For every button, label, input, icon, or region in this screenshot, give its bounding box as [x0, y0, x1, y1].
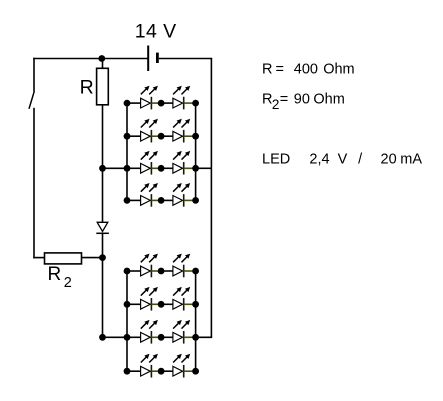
node top-rail/R junction — [98, 55, 105, 62]
node D13 left junction — [124, 165, 131, 172]
wire D11 cathode segment 2 — [184, 102, 196, 104]
wire D23 anode segment 1 — [127, 336, 141, 338]
LED D12b — [173, 119, 190, 143]
wire top-group right column — [195, 103, 197, 200]
LED D21a — [141, 254, 158, 278]
node D23 middle junction — [158, 334, 165, 341]
wire top-group row3 to outer right — [196, 167, 212, 169]
wire left to R2 — [33, 257, 44, 259]
LED D14a — [141, 183, 158, 207]
LED D12a — [141, 119, 158, 143]
svg-text:R: R — [80, 77, 94, 99]
wire D14 cathode segment 2 — [184, 199, 196, 201]
node D14 middle junction — [158, 197, 165, 204]
wire D23 anode segment 2 — [161, 336, 173, 338]
wire D23 cathode segment 2 — [184, 336, 196, 338]
LED D22a — [141, 287, 158, 311]
svg-text:2: 2 — [64, 275, 72, 291]
wire D22 cathode segment 2 — [184, 303, 196, 305]
wire top row3 left extension — [103, 167, 128, 169]
resistor R2 — [45, 253, 82, 264]
node D24 left junction — [124, 368, 131, 375]
battery V1 14V — [148, 46, 157, 72]
wire left vertical lower — [33, 108, 35, 259]
node D21 right junction — [192, 268, 199, 275]
svg-text:R=400Ohm: R=400Ohm — [262, 62, 355, 78]
node D21 left junction — [124, 268, 131, 275]
wire bottom-group left column — [126, 271, 128, 371]
node R2/main junction — [99, 254, 106, 261]
wire diode to R2 node — [102, 233, 104, 257]
node D24 middle junction — [158, 368, 165, 375]
LED D14b — [173, 183, 190, 207]
wire D24 cathode segment 2 — [184, 370, 196, 372]
wire bottom-group row3 to outer right — [196, 336, 213, 338]
wire D13 anode segment 1 — [127, 167, 141, 169]
node D11 middle junction — [158, 100, 165, 107]
node D22 left junction — [124, 301, 131, 308]
node D13 middle junction — [158, 165, 165, 172]
LED D24b — [173, 354, 190, 378]
node D12 left junction — [124, 133, 131, 140]
wire D23 cathode segment 1 — [151, 336, 161, 338]
wire R2 node to bottom row3 — [102, 258, 104, 338]
diode D1 — [96, 222, 109, 233]
node D12 right junction — [192, 133, 199, 140]
wire D13 cathode segment 1 — [151, 167, 161, 169]
wire row3 node to diode — [102, 168, 104, 222]
wire D21 anode segment 2 — [161, 270, 173, 272]
LED D23a — [141, 320, 158, 344]
svg-text:14 V: 14 V — [135, 21, 177, 43]
wire D13 anode segment 2 — [161, 167, 173, 169]
node D11 right junction — [192, 100, 199, 107]
LED D13a — [141, 151, 158, 175]
node D23 left junction — [124, 334, 131, 341]
wire D24 cathode segment 1 — [151, 370, 161, 372]
wire top rail left segment — [33, 58, 148, 60]
wire bottom-group right column — [195, 271, 197, 371]
LED D21b — [173, 254, 190, 278]
wire D11 cathode segment 1 — [151, 102, 161, 104]
wire top rail right segment — [159, 58, 212, 60]
node D11 left junction — [124, 100, 131, 107]
node D14 right junction — [192, 197, 199, 204]
wire D12 anode segment 2 — [161, 135, 173, 137]
wire D11 anode segment 1 — [127, 102, 141, 104]
wire D21 anode segment 1 — [127, 270, 141, 272]
wire bottom row3 left extension — [103, 336, 128, 338]
wire D21 cathode segment 1 — [151, 270, 161, 272]
node D22 middle junction — [158, 301, 165, 308]
wire D22 anode segment 2 — [161, 303, 173, 305]
LED D11b — [173, 86, 190, 110]
LED D22b — [173, 287, 190, 311]
wire outer right vertical — [210, 59, 212, 338]
LED D11a — [141, 86, 158, 110]
wire D13 cathode segment 2 — [184, 167, 196, 169]
wire D22 anode segment 1 — [127, 303, 141, 305]
wire D22 cathode segment 1 — [151, 303, 161, 305]
wire top-group left column — [126, 103, 128, 200]
LED D13b — [173, 151, 190, 175]
resistor R — [97, 68, 109, 105]
LED D23b — [173, 320, 190, 344]
wire R2 to node — [82, 257, 103, 259]
node D23 right junction — [192, 334, 199, 341]
node D12 middle junction — [158, 133, 165, 140]
node D22 right junction — [192, 301, 199, 308]
wire D24 anode segment 1 — [127, 370, 141, 372]
svg-text:R: R — [48, 264, 62, 285]
node D24 right junction — [192, 368, 199, 375]
wire left vertical upper — [33, 58, 35, 92]
switch S1 (open) — [29, 91, 34, 109]
node D14 left junction — [124, 197, 131, 204]
wire D12 cathode segment 2 — [184, 135, 196, 137]
LED D24a — [141, 354, 158, 378]
wire rail to R — [102, 59, 104, 69]
node main/row3 junction — [99, 165, 106, 172]
wire D21 cathode segment 2 — [184, 270, 196, 272]
wire D14 anode segment 1 — [127, 199, 141, 201]
wire D11 anode segment 2 — [161, 102, 173, 104]
wire D12 cathode segment 1 — [151, 135, 161, 137]
wire D14 anode segment 2 — [161, 199, 173, 201]
node D21 middle junction — [158, 268, 165, 275]
node main/bottom-row3 junction — [99, 334, 106, 341]
wire D12 anode segment 1 — [127, 135, 141, 137]
wire R to row3 node — [102, 105, 104, 169]
node D13 right junction — [192, 165, 199, 172]
wire D24 anode segment 2 — [161, 370, 173, 372]
wire D14 cathode segment 1 — [151, 199, 161, 201]
